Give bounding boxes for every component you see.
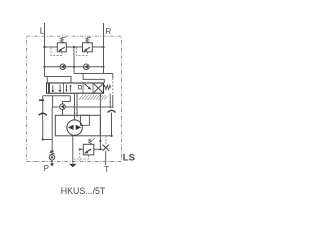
wire valve right to box corner: [99, 93, 101, 136]
drain arrow up: [39, 113, 47, 115]
valve right spring: [104, 85, 111, 89]
junction dots top: [43, 46, 104, 68]
valve left section down arrows: [53, 85, 60, 92]
enclosure dashed boundary: [27, 36, 122, 161]
wire P drop: [52, 96, 54, 107]
relief valve V1 arrow: [60, 47, 65, 50]
relief valve V1 body: [57, 43, 66, 52]
wire LS down: [111, 113, 113, 136]
valve diag arrow: [85, 84, 91, 89]
port line R: [103, 23, 105, 74]
wire sub rail below valve: [43, 95, 71, 97]
svg-text:P: P: [44, 164, 49, 173]
svg-text:L: L: [40, 26, 45, 36]
relief valve V1 pilot dashed: [51, 48, 62, 56]
LS relief drain dashed: [79, 149, 81, 161]
hatch below valve: [79, 95, 107, 100]
valve right X: [94, 84, 103, 93]
relief valve V2 pilot dashed: [77, 48, 88, 56]
dashed pilot to X: [105, 136, 107, 144]
check valve C2: [84, 64, 90, 70]
drain tick: [39, 99, 44, 101]
LS relief valve body: [83, 144, 94, 155]
svg-text:T: T: [104, 165, 109, 174]
tank line: [72, 136, 74, 164]
svg-text:HKUS.../5T: HKUS.../5T: [61, 186, 106, 196]
LS relief left stub: [80, 148, 84, 150]
LS arrow up: [108, 110, 116, 112]
small rect in box: [80, 115, 89, 125]
pump box: [55, 115, 100, 136]
valve left end bar: [48, 83, 50, 92]
wire check rail y=66.8: [45, 66, 104, 68]
wire middle vertical x=74: [73, 47, 75, 74]
P line: [51, 107, 53, 151]
relief valve V2 spring: [86, 37, 91, 43]
port line L: [44, 23, 46, 77]
valve mid ticks: [67, 85, 71, 92]
wire stub down x=83: [83, 74, 104, 84]
relief valve V2 body: [83, 43, 93, 52]
svg-text:R: R: [105, 26, 111, 36]
wire pump to LS line: [99, 136, 101, 150]
T line: [105, 151, 107, 165]
tank arrow: [69, 164, 77, 167]
wire horizontal y=107: [53, 106, 113, 108]
wires converging to LS arrow: [110, 94, 113, 109]
wire L rail to valve: [45, 77, 72, 84]
wire relief rail y=47: [45, 46, 104, 48]
P check circle: [49, 155, 54, 160]
P line lower + arrow: [51, 160, 53, 164]
pump arrows: [68, 125, 74, 130]
wire check drop jog: [63, 96, 71, 104]
pump box extension: [100, 135, 111, 137]
svg-text:LS: LS: [123, 153, 135, 164]
wire LS valve to X: [94, 148, 110, 149]
relief valve V1 spring: [60, 37, 65, 43]
pump circle: [67, 120, 82, 135]
pilot dashed drop x=111.8: [112, 74, 114, 79]
LS relief arrow: [85, 149, 91, 153]
valve small box: [78, 86, 81, 90]
check valve C3: [60, 104, 66, 110]
directional valve block: [47, 83, 104, 93]
LS relief spring: [89, 139, 92, 144]
drain left line: [43, 96, 53, 140]
P spring squiggle: [50, 151, 53, 155]
wires valve to box A B: [75, 93, 78, 120]
wire R jog y=73.5: [74, 73, 113, 75]
check valve C1: [60, 64, 66, 70]
relief valve V2 arrow: [85, 47, 90, 50]
restrictor X: [103, 145, 109, 151]
